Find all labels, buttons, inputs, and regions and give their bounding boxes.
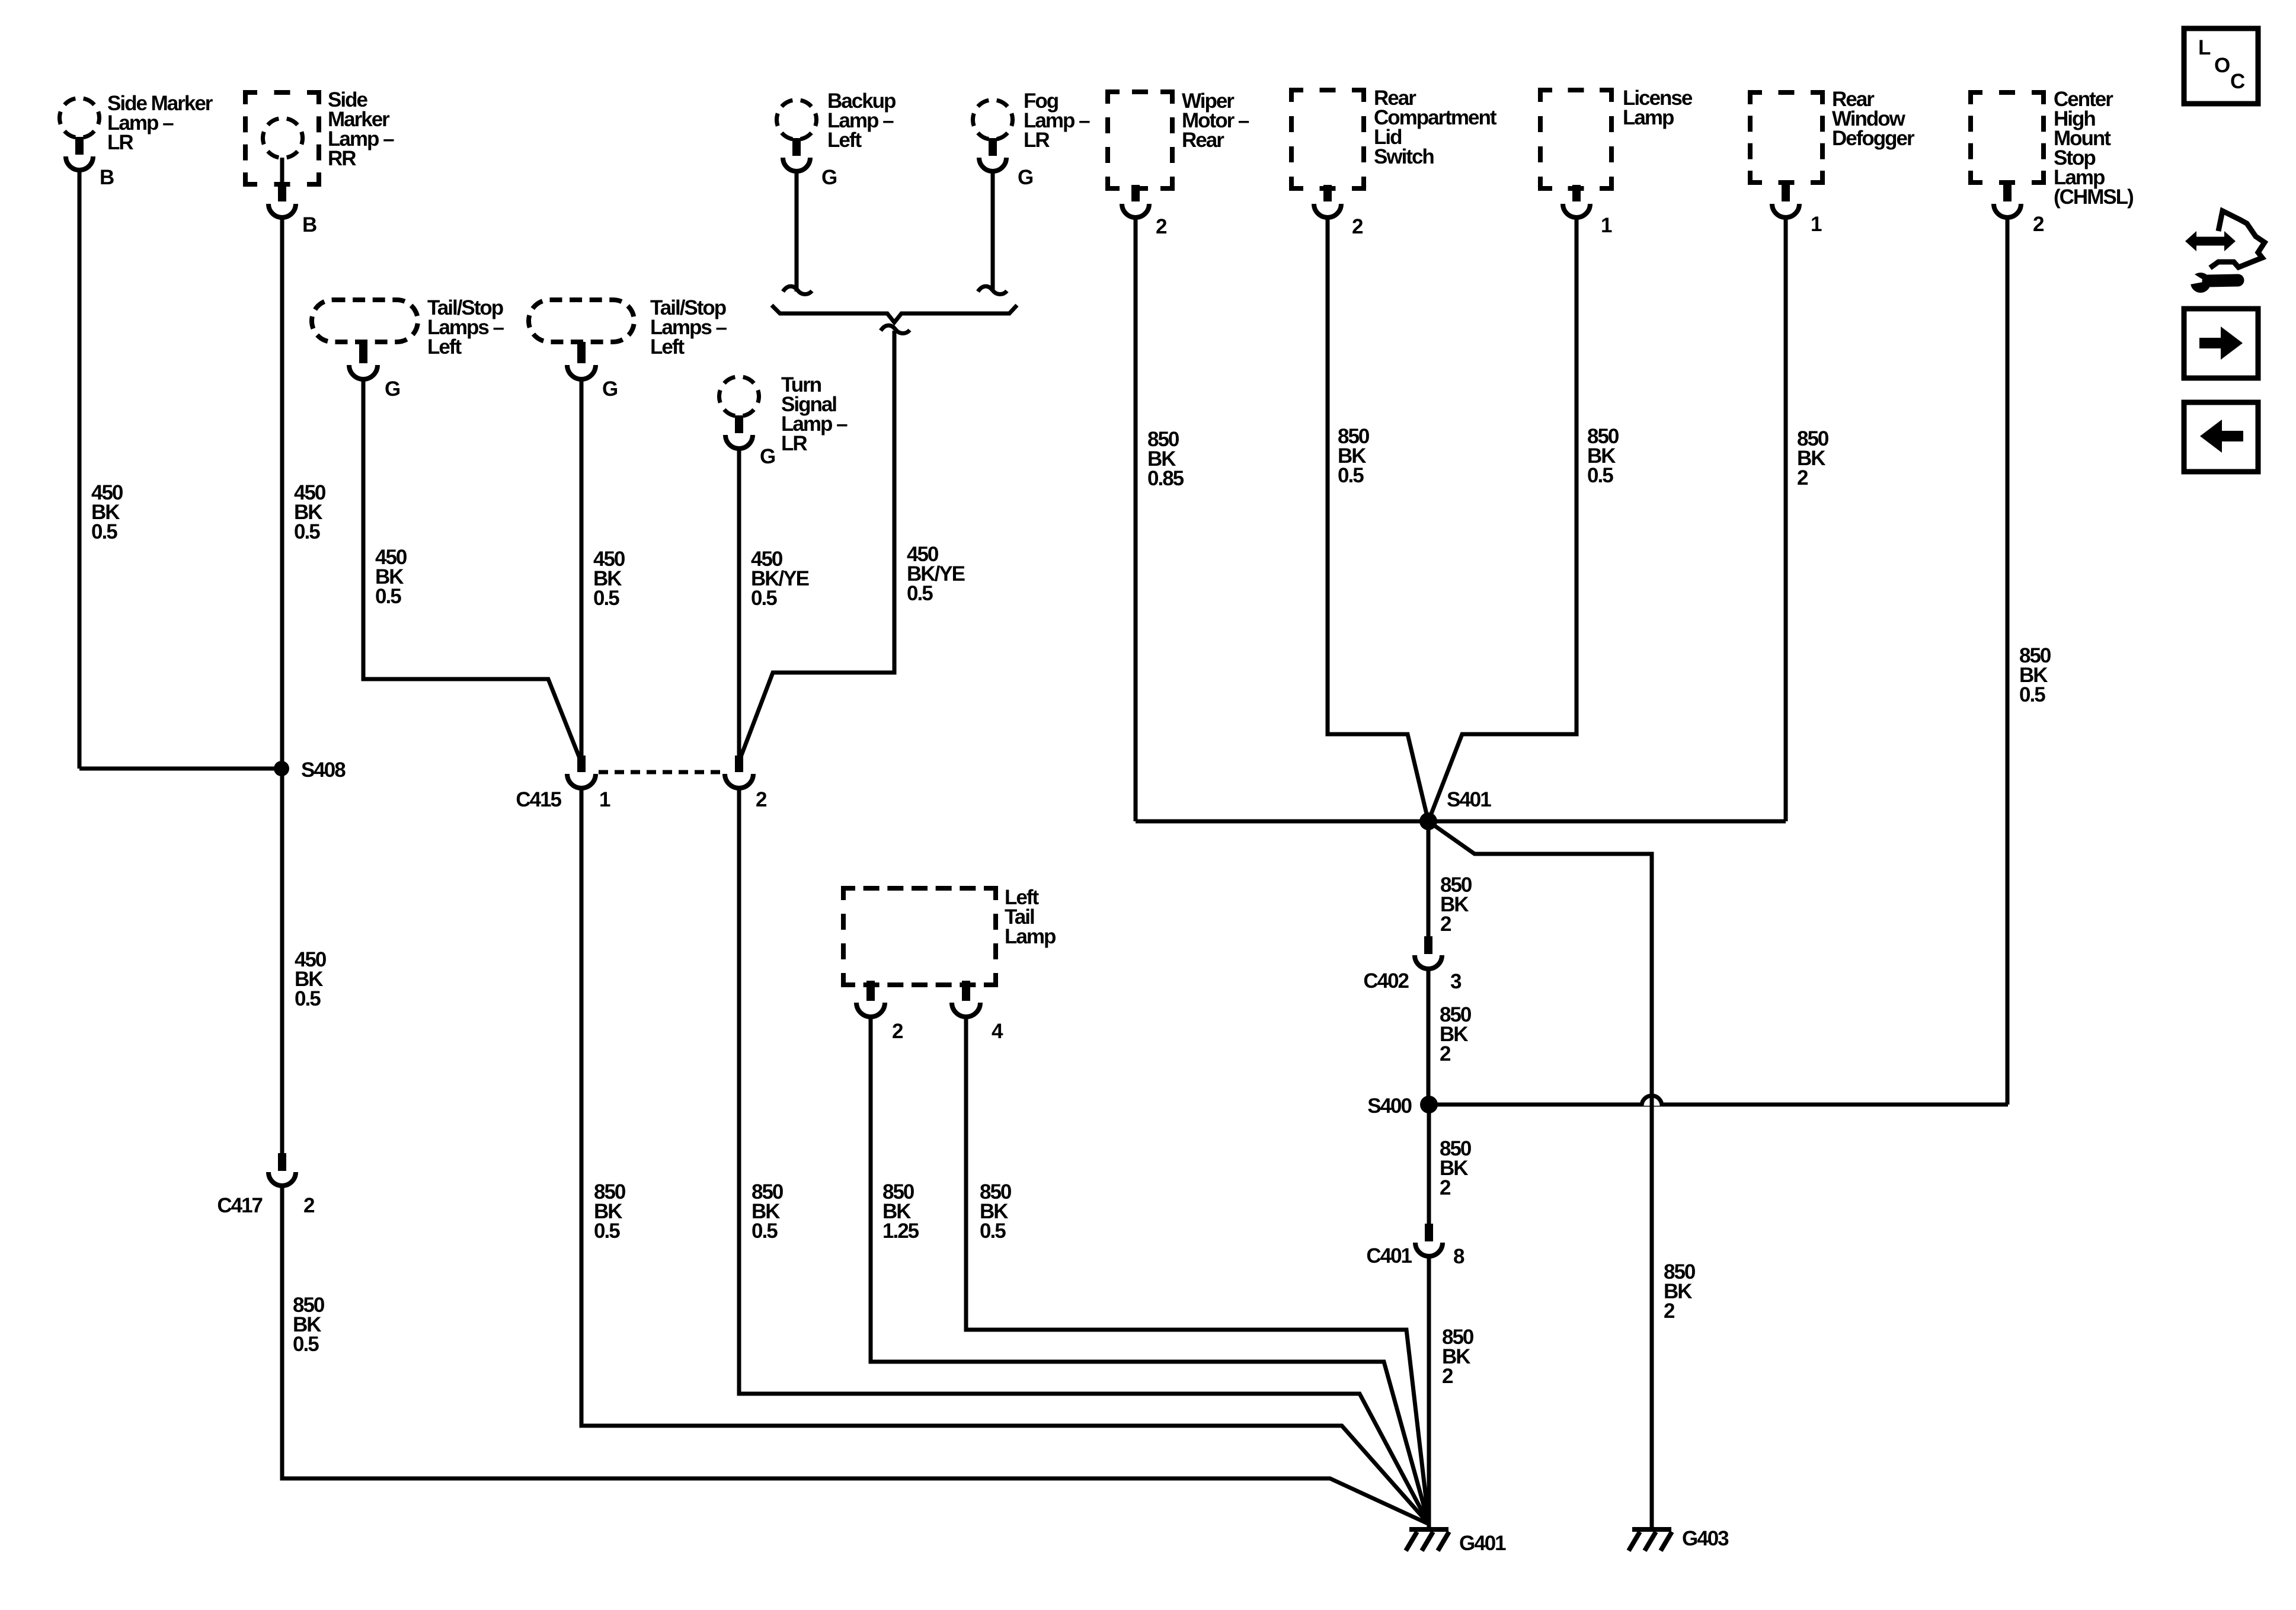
svg-text:0.85: 0.85	[1147, 467, 1184, 490]
svg-text:2: 2	[303, 1194, 315, 1217]
svg-text:LR: LR	[107, 131, 133, 154]
svg-text:S408: S408	[301, 758, 346, 782]
svg-text:2: 2	[756, 788, 767, 811]
svg-text:2: 2	[1440, 1042, 1451, 1065]
svg-text:0.5: 0.5	[907, 582, 933, 605]
svg-text:8: 8	[1453, 1245, 1464, 1268]
svg-text:RR: RR	[328, 147, 356, 170]
svg-text:0.5: 0.5	[1338, 464, 1364, 487]
svg-text:2: 2	[1440, 913, 1451, 936]
svg-text:G: G	[760, 445, 775, 468]
svg-text:2: 2	[1440, 1176, 1451, 1199]
svg-text:3: 3	[1450, 970, 1462, 993]
svg-text:1: 1	[1601, 214, 1612, 237]
svg-text:C401: C401	[1366, 1244, 1412, 1267]
svg-text:1: 1	[599, 788, 610, 811]
svg-text:0.5: 0.5	[752, 1219, 778, 1243]
svg-text:O: O	[2214, 54, 2230, 77]
svg-text:C417: C417	[217, 1194, 262, 1217]
svg-text:Left: Left	[650, 335, 685, 359]
svg-text:G401: G401	[1459, 1532, 1506, 1555]
svg-text:2: 2	[2033, 213, 2044, 236]
svg-text:Switch: Switch	[1374, 145, 1434, 168]
svg-text:(CHMSL): (CHMSL)	[2054, 185, 2133, 209]
svg-text:0.5: 0.5	[91, 520, 117, 543]
svg-text:S401: S401	[1447, 788, 1491, 811]
svg-text:Left: Left	[427, 335, 462, 359]
svg-text:G: G	[1018, 166, 1033, 189]
svg-text:1: 1	[1811, 213, 1822, 236]
svg-text:2: 2	[892, 1020, 903, 1043]
svg-text:0.5: 0.5	[2019, 683, 2045, 706]
svg-text:G: G	[385, 377, 400, 401]
svg-text:0.5: 0.5	[594, 1219, 620, 1243]
svg-text:0.5: 0.5	[593, 587, 619, 610]
svg-text:0.5: 0.5	[294, 520, 320, 543]
svg-text:2: 2	[1797, 466, 1808, 489]
svg-text:C: C	[2230, 70, 2245, 93]
svg-text:0.5: 0.5	[295, 987, 321, 1010]
svg-text:Lamp: Lamp	[1623, 106, 1674, 129]
svg-text:B: B	[302, 213, 316, 236]
svg-text:Left: Left	[827, 129, 862, 152]
svg-text:C415: C415	[516, 788, 561, 811]
svg-text:0.5: 0.5	[1587, 464, 1613, 487]
svg-text:2: 2	[1352, 215, 1363, 238]
svg-text:4: 4	[992, 1020, 1003, 1043]
svg-text:2: 2	[1156, 215, 1167, 238]
svg-text:LR: LR	[781, 432, 807, 455]
svg-text:0.5: 0.5	[980, 1219, 1006, 1243]
svg-text:0.5: 0.5	[293, 1333, 319, 1356]
svg-text:LR: LR	[1024, 129, 1050, 152]
svg-text:2: 2	[1664, 1299, 1675, 1323]
svg-text:G403: G403	[1682, 1527, 1729, 1550]
svg-text:1.25: 1.25	[882, 1219, 919, 1243]
svg-text:Defogger: Defogger	[1832, 127, 1915, 150]
svg-text:0.5: 0.5	[375, 585, 401, 608]
svg-text:L: L	[2198, 36, 2211, 59]
svg-text:S400: S400	[1367, 1094, 1412, 1118]
svg-text:Lamp: Lamp	[1005, 925, 1056, 948]
svg-text:B: B	[100, 166, 114, 189]
svg-text:G: G	[602, 377, 618, 401]
svg-text:Rear: Rear	[1182, 129, 1224, 152]
svg-text:2: 2	[1442, 1365, 1453, 1388]
svg-text:C402: C402	[1363, 969, 1409, 993]
svg-text:0.5: 0.5	[751, 587, 777, 610]
svg-text:G: G	[821, 166, 837, 189]
